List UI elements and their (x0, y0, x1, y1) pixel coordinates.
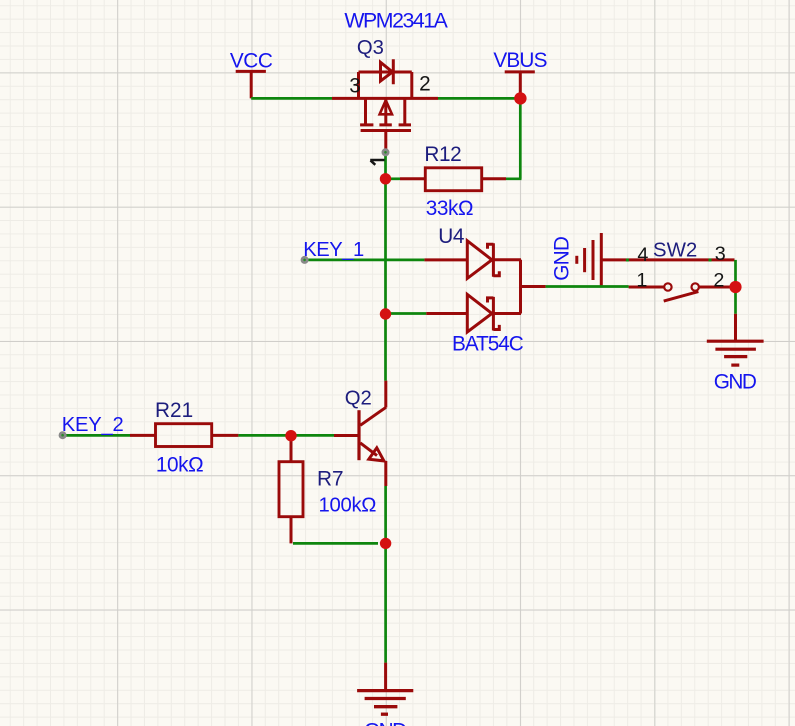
svg-text:R7: R7 (317, 468, 344, 491)
svg-text:GND: GND (714, 371, 757, 394)
svg-text:SW2: SW2 (653, 238, 697, 261)
svg-text:KEY_2: KEY_2 (62, 414, 124, 436)
svg-text:WPM2341A: WPM2341A (344, 8, 448, 32)
svg-text:KEY_1: KEY_1 (303, 239, 364, 261)
svg-text:R12: R12 (424, 143, 461, 166)
svg-text:Q2: Q2 (345, 388, 372, 410)
svg-text:2: 2 (713, 270, 724, 292)
svg-text:10kΩ: 10kΩ (156, 454, 203, 477)
svg-text:Q3: Q3 (357, 37, 384, 59)
svg-text:4: 4 (637, 244, 648, 266)
svg-text:GND: GND (551, 236, 574, 281)
svg-text:33kΩ: 33kΩ (426, 197, 473, 220)
svg-text:100kΩ: 100kΩ (319, 494, 377, 516)
svg-text:U4: U4 (438, 225, 464, 248)
svg-text:1: 1 (636, 270, 647, 292)
svg-text:BAT54C: BAT54C (452, 333, 524, 356)
svg-text:2: 2 (419, 73, 431, 96)
svg-text:3: 3 (349, 74, 361, 97)
svg-text:GND: GND (364, 719, 407, 726)
svg-text:VBUS: VBUS (493, 49, 546, 72)
svg-text:VCC: VCC (230, 49, 273, 72)
svg-text:3: 3 (715, 243, 726, 265)
svg-text:R21: R21 (155, 399, 193, 422)
